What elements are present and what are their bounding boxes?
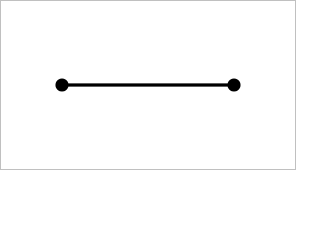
node B xyxy=(227,78,240,91)
wire xyxy=(62,83,234,86)
node A xyxy=(55,78,68,91)
